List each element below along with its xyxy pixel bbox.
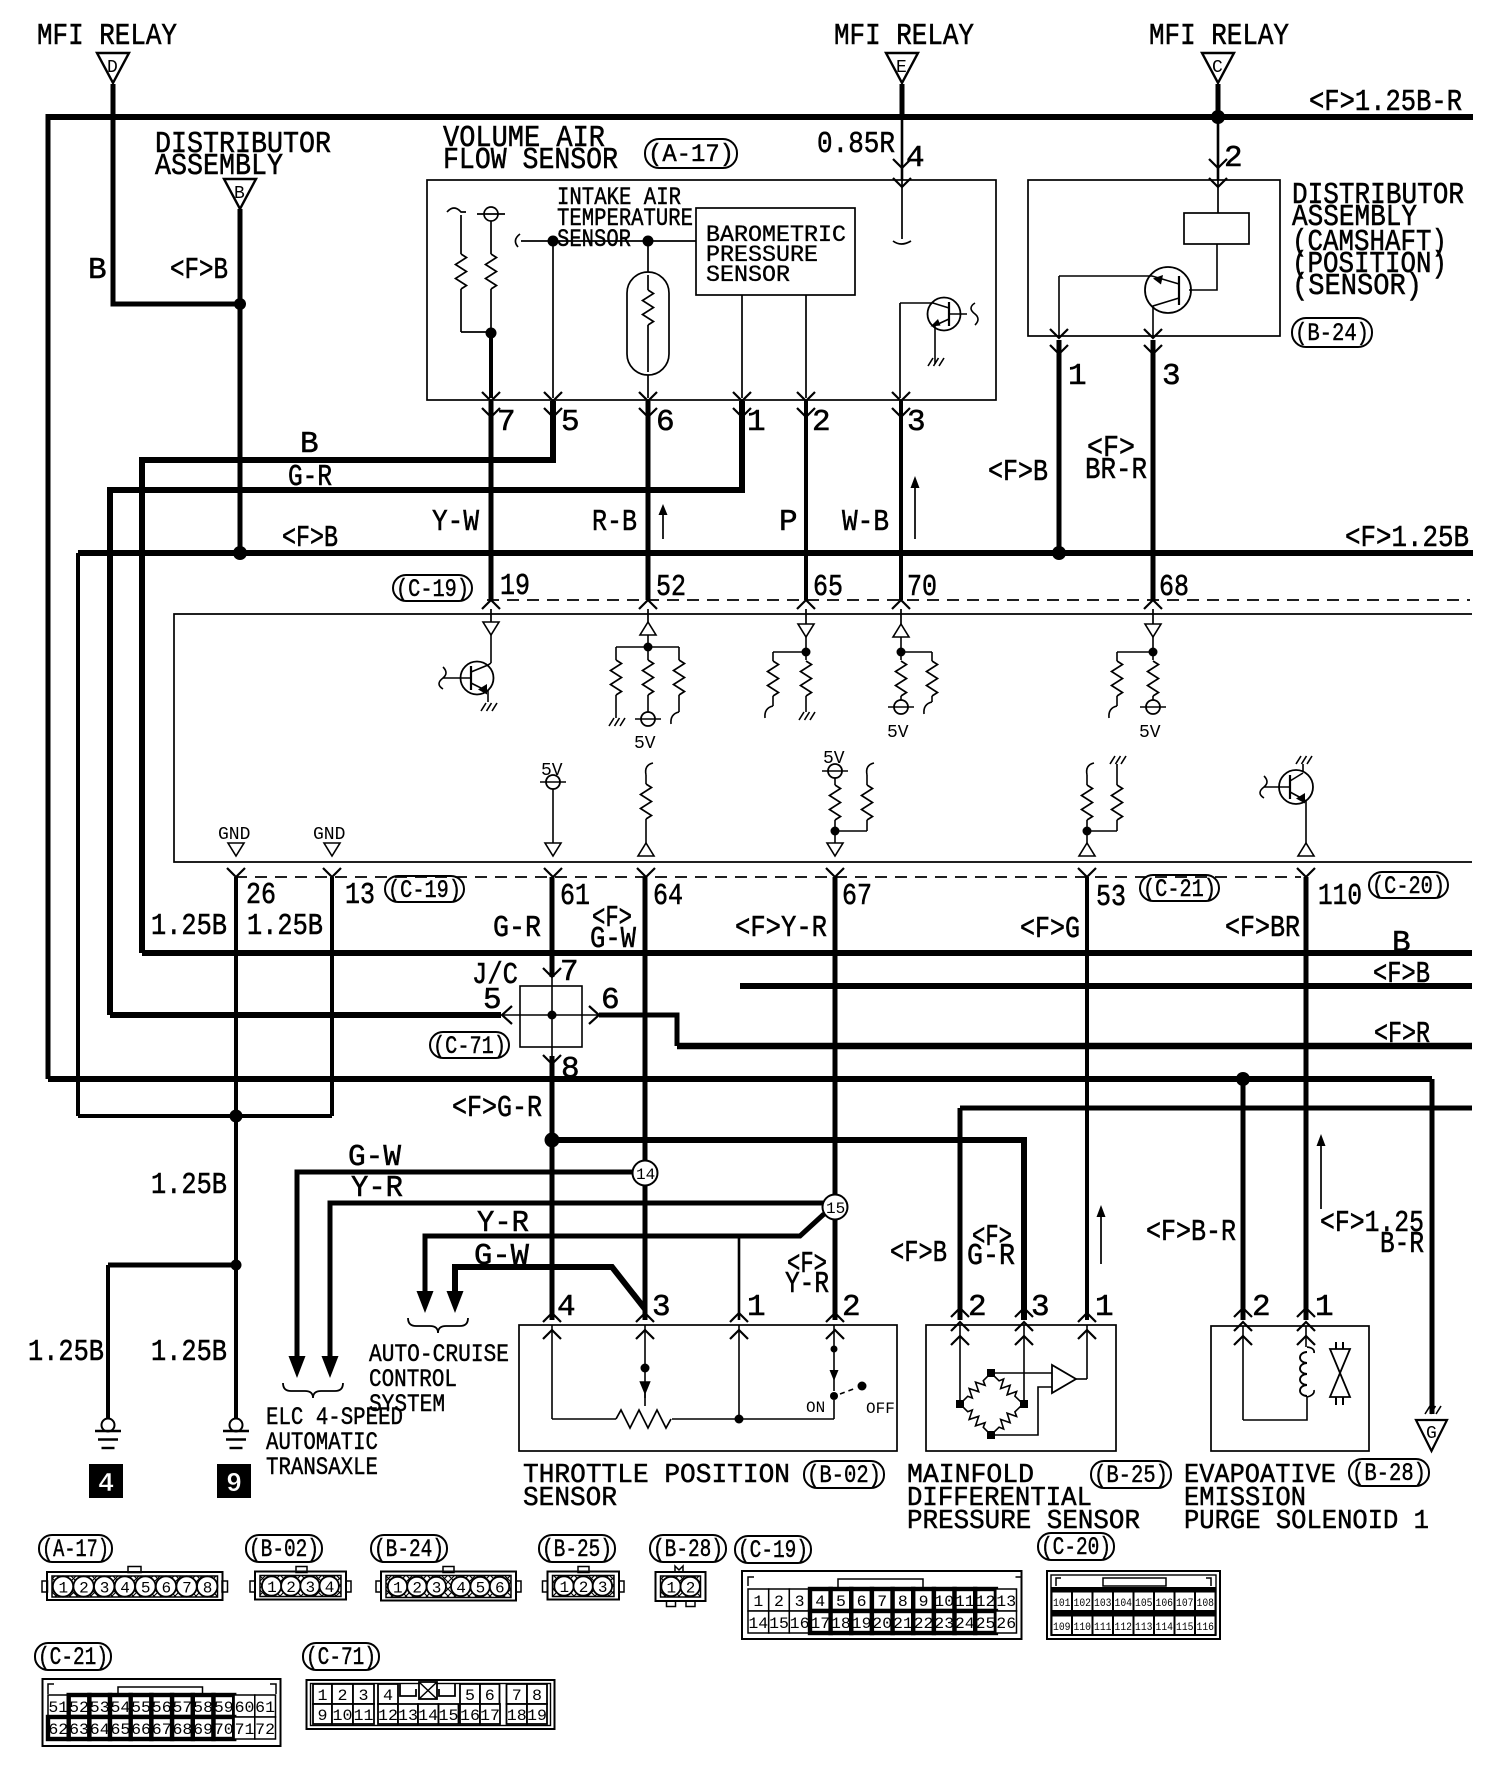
- svg-text:<F>R: <F>R: [1374, 1017, 1430, 1052]
- wire ground branch horizontal: [78, 1114, 332, 1118]
- box THROTTLE POSITION SENSOR: [519, 1325, 897, 1451]
- terminal hook pin64 top: [646, 763, 653, 775]
- pin70 resistor network: [897, 637, 933, 660]
- resistor pin70 left: [896, 661, 907, 700]
- svg-text:4: 4: [906, 141, 925, 176]
- junction dot pin53: [1083, 827, 1092, 836]
- svg-text:3: 3: [306, 1579, 316, 1597]
- svg-text:1.25B: 1.25B: [28, 1335, 104, 1370]
- wire pin13 drop: [330, 877, 334, 1116]
- svg-text:(C-71): (C-71): [433, 1032, 506, 1061]
- 5V supply pin68: [1140, 700, 1166, 714]
- wire MFI relay C drop: [1216, 84, 1221, 117]
- svg-text:ON: ON: [806, 1399, 825, 1417]
- J/C internal cross: [503, 977, 598, 1056]
- svg-text:Y-W: Y-W: [432, 505, 479, 540]
- wire B-24 pin1 (F)B drop: [1057, 340, 1062, 553]
- svg-text:5V: 5V: [823, 749, 845, 769]
- pin68 resistor network: [1117, 637, 1158, 660]
- amplifier B-25: [991, 1365, 1087, 1435]
- svg-text:9: 9: [318, 1707, 328, 1725]
- wire MFI relay E drop 0.85R: [900, 84, 905, 117]
- pin52 resistor network: [616, 635, 679, 652]
- svg-text:7: 7: [877, 1593, 887, 1611]
- 5V supply pin70: [888, 700, 914, 714]
- offpage arrow near pin52: [659, 504, 668, 539]
- connector triangle E: [886, 53, 918, 83]
- svg-text:1: 1: [753, 1593, 763, 1611]
- brace AUTO-CRUISE: [408, 1318, 468, 1333]
- svg-text:67: 67: [842, 879, 872, 914]
- VAF pin chevrons at box bottom: [482, 392, 910, 417]
- wire VAF pin6 to ECU pin52 R-B: [646, 401, 651, 600]
- transistor B-24 Q1: [1059, 267, 1191, 336]
- svg-text:102: 102: [1074, 1598, 1092, 1610]
- svg-text:P: P: [779, 505, 798, 540]
- svg-text:20: 20: [872, 1615, 892, 1633]
- svg-text:BR-R: BR-R: [1085, 453, 1147, 488]
- ECU pin chevrons top: [482, 600, 1162, 609]
- svg-text:9: 9: [226, 1470, 242, 1500]
- box ECU: [174, 614, 1472, 862]
- svg-text:69: 69: [193, 1721, 213, 1739]
- svg-text:67: 67: [152, 1721, 172, 1739]
- svg-text:2: 2: [338, 1687, 348, 1705]
- wiper arrow TPS: [641, 1382, 650, 1406]
- input triangle pin65: [798, 624, 814, 637]
- svg-text:(C-19): (C-19): [388, 876, 461, 905]
- svg-text:2: 2: [842, 1290, 861, 1325]
- svg-text:64: 64: [653, 879, 683, 914]
- svg-text:(B-25): (B-25): [542, 1535, 612, 1564]
- svg-text:14: 14: [748, 1615, 768, 1633]
- svg-text:6: 6: [656, 405, 675, 440]
- wire ground1 branch: [108, 1263, 236, 1268]
- svg-text:52: 52: [69, 1699, 89, 1717]
- wire G into J/C pin5: [110, 1012, 501, 1018]
- svg-text:MFI RELAY: MFI RELAY: [834, 19, 974, 54]
- offpage arrow near pin70: [911, 476, 920, 539]
- svg-text:70: 70: [214, 1721, 234, 1739]
- ground pin53 right resistor top: [1110, 756, 1126, 764]
- connector C-71 pinout: [307, 1680, 555, 1729]
- wire J/C pin8 down: [550, 1056, 555, 1320]
- junction dot IAT a: [548, 236, 559, 247]
- wire B-24 pin1 inside: [1058, 276, 1060, 336]
- wire pin19 to transistor: [490, 635, 492, 663]
- svg-text:D: D: [107, 58, 118, 78]
- terminal hook pin53 left top: [1087, 763, 1094, 775]
- transistor VAF Q1: [900, 298, 978, 365]
- J/C pin8 chevron: [543, 1055, 561, 1064]
- svg-text:FLOW SENSOR: FLOW SENSOR: [443, 143, 618, 178]
- svg-text:110: 110: [1074, 1622, 1092, 1634]
- wire pin67 drop to TPS pin2: [833, 877, 838, 1320]
- ground pin65: [799, 712, 815, 720]
- svg-text:3: 3: [1162, 359, 1181, 394]
- svg-text:112: 112: [1115, 1622, 1133, 1634]
- pin65 resistor network: [773, 637, 811, 660]
- offpage arrow B-28 pin1: [1317, 1134, 1326, 1209]
- output triangle pin67: [827, 843, 843, 856]
- 5V supply pin67: [822, 764, 848, 778]
- TPS pin chevrons: [543, 1313, 844, 1339]
- terminal hook pin52 right resistor: [671, 712, 679, 724]
- resistor pin52 right: [674, 647, 685, 712]
- svg-text:55: 55: [131, 1699, 151, 1717]
- svg-text:10: 10: [333, 1707, 353, 1725]
- wire pin110 drop to B-28 pin1: [1304, 877, 1309, 1320]
- svg-text:(C-20): (C-20): [1372, 872, 1445, 901]
- svg-text:16: 16: [460, 1707, 480, 1725]
- wire VAF pin7 to ECU pin19 Y-W: [489, 401, 494, 600]
- svg-text:72: 72: [255, 1721, 275, 1739]
- wire pin7 inside: [489, 333, 493, 398]
- B-25 pin chevrons: [951, 1308, 1096, 1345]
- svg-text:OFF: OFF: [866, 1400, 895, 1418]
- ground symbol 2: [223, 1419, 249, 1449]
- terminal hook pin4: [893, 241, 911, 244]
- connector C-21 pinout: [43, 1679, 281, 1746]
- svg-text:(B-28): (B-28): [1352, 1459, 1426, 1488]
- junction dot TPS pin1: [735, 1415, 744, 1424]
- wire (F)R horizontal: [677, 1043, 1472, 1050]
- arrow G-W to ELC: [289, 1356, 306, 1378]
- svg-text:B: B: [234, 184, 245, 204]
- svg-text:(C-21): (C-21): [1143, 875, 1216, 904]
- output triangle pin64: [638, 843, 654, 856]
- B-28 pin chevrons: [1234, 1308, 1315, 1345]
- wire ECU pin19 internal: [490, 609, 492, 622]
- svg-text:G: G: [1426, 1424, 1437, 1444]
- svg-text:6: 6: [495, 1580, 505, 1598]
- junction dot TPS pin3: [641, 1364, 650, 1373]
- pin 2 chevron B-24 top: [1209, 159, 1227, 168]
- svg-text:15: 15: [826, 1200, 845, 1218]
- input triangle pin19: [483, 622, 499, 635]
- svg-text:57: 57: [173, 1699, 193, 1717]
- wire ECU pin70 internal: [900, 609, 902, 624]
- svg-text:16: 16: [790, 1615, 810, 1633]
- ground pin52 left resistor: [609, 718, 625, 726]
- transistor ECU pin110: [1260, 764, 1313, 843]
- svg-text:3: 3: [100, 1580, 110, 1598]
- connector B-02 pinout: [250, 1567, 351, 1600]
- box DISTRIBUTOR ASSEMBLY B-24: [1028, 180, 1280, 336]
- svg-text:B-R: B-R: [1380, 1227, 1424, 1262]
- thermistor intake air temperature sensor: [627, 241, 669, 398]
- idle switch TPS: [830, 1346, 867, 1401]
- svg-text:109: 109: [1053, 1622, 1071, 1634]
- svg-text:MFI RELAY: MFI RELAY: [37, 19, 177, 54]
- connector ref C-71 pinout label: [303, 1643, 379, 1672]
- svg-text:SYSTEM: SYSTEM: [369, 1390, 445, 1419]
- svg-text:3: 3: [598, 1579, 608, 1597]
- svg-text:3: 3: [907, 405, 926, 440]
- J/C pin7 chevron: [543, 968, 561, 977]
- svg-text:7: 7: [512, 1687, 522, 1705]
- wire pin53 drop to B-25 pin1: [1085, 877, 1089, 1320]
- svg-text:<F>B: <F>B: [170, 253, 228, 288]
- connector ref A-17 pinout label: [39, 1535, 112, 1564]
- svg-text:104: 104: [1115, 1598, 1133, 1610]
- svg-text:(B-24): (B-24): [374, 1535, 444, 1564]
- svg-text:54: 54: [111, 1699, 131, 1717]
- svg-text:59: 59: [214, 1699, 234, 1717]
- svg-text:4: 4: [383, 1687, 393, 1705]
- connector ref B-02 pinout label: [246, 1535, 322, 1564]
- terminal hook IAT line: [515, 234, 520, 247]
- svg-text:61: 61: [255, 1699, 275, 1717]
- svg-text:13: 13: [398, 1707, 418, 1725]
- joint connector box C-71: [520, 986, 582, 1047]
- svg-text:4: 4: [815, 1593, 825, 1611]
- wire pin3 inside: [899, 303, 901, 398]
- svg-text:7: 7: [560, 955, 579, 990]
- svg-text:8: 8: [532, 1687, 542, 1705]
- svg-text:<F>1.25B-R: <F>1.25B-R: [1309, 85, 1462, 120]
- ECU top dashed connector line: [487, 599, 1470, 601]
- wire TPS pin1: [738, 1236, 741, 1320]
- resistor pin52 middle: [643, 647, 654, 712]
- svg-text:61: 61: [560, 879, 590, 914]
- brace ELC: [283, 1383, 343, 1398]
- flow sensor element symbol: [477, 207, 505, 221]
- svg-text:(B-02): (B-02): [807, 1461, 881, 1490]
- resistor pin65 left: [768, 652, 779, 706]
- wire purge G drop: [1430, 1079, 1435, 1414]
- svg-text:GND: GND: [313, 825, 345, 845]
- svg-text:6: 6: [162, 1580, 172, 1598]
- wire ECU pin68 internal: [1152, 609, 1154, 624]
- svg-text:116: 116: [1197, 1622, 1215, 1634]
- wire baro pin2: [805, 295, 807, 398]
- svg-text:(C-71): (C-71): [306, 1643, 376, 1672]
- resistor pin53 right: [1087, 764, 1123, 831]
- J/C pin5 arrow: [502, 1006, 512, 1024]
- ECU pin chevrons bottom: [227, 868, 1315, 877]
- svg-text:65: 65: [111, 1721, 131, 1739]
- svg-text:5: 5: [483, 983, 502, 1018]
- svg-text:Y-R: Y-R: [785, 1267, 829, 1302]
- svg-text:(C-20): (C-20): [1041, 1533, 1111, 1562]
- svg-text:1: 1: [318, 1687, 328, 1705]
- junction dot pin67: [831, 827, 840, 836]
- svg-text:64: 64: [90, 1721, 110, 1739]
- junction dot C on bus: [1211, 110, 1225, 124]
- resistor pin67 left: [830, 778, 841, 843]
- svg-text:5V: 5V: [634, 734, 656, 754]
- svg-text:1: 1: [560, 1579, 570, 1597]
- svg-text:TRANSAXLE: TRANSAXLE: [266, 1453, 378, 1482]
- svg-text:1.25B: 1.25B: [247, 909, 323, 944]
- gnd triangle pin26: [228, 843, 244, 856]
- connector B-24 pinout: [376, 1567, 521, 1601]
- junction dot B-28 pin2 feed: [1236, 1072, 1250, 1086]
- svg-text:24: 24: [955, 1615, 975, 1633]
- wheatstone bridge B-25: [956, 1369, 1028, 1439]
- svg-text:53: 53: [90, 1699, 110, 1717]
- B-24 pin chevrons: [1050, 329, 1162, 354]
- svg-text:13: 13: [996, 1593, 1016, 1611]
- ground VAF transistor emitter: [928, 358, 944, 366]
- svg-text:107: 107: [1176, 1598, 1194, 1610]
- junction dot D/B wires: [234, 298, 246, 310]
- svg-text:56: 56: [152, 1699, 172, 1717]
- svg-text:<F>BR: <F>BR: [1225, 911, 1300, 946]
- svg-text:C: C: [1212, 58, 1223, 78]
- svg-text:111: 111: [1094, 1622, 1112, 1634]
- connector ref B-25 pinout label: [539, 1535, 615, 1564]
- svg-text:SENSOR: SENSOR: [706, 262, 790, 288]
- svg-text:<F>B: <F>B: [282, 521, 338, 556]
- svg-text:E: E: [896, 58, 907, 78]
- svg-text:2: 2: [412, 1580, 422, 1598]
- svg-text:106: 106: [1156, 1598, 1174, 1610]
- wire B-24 pin3 BR-R drop: [1151, 340, 1156, 600]
- purge valve symbol B-28: [1330, 1342, 1350, 1405]
- wire Y-R to autocruise and splice15: [425, 1214, 824, 1291]
- svg-text:22: 22: [914, 1615, 934, 1633]
- svg-text:25: 25: [976, 1615, 996, 1633]
- svg-text:19: 19: [527, 1707, 547, 1725]
- svg-text:<F>B-R: <F>B-R: [1146, 1215, 1236, 1250]
- svg-text:5: 5: [476, 1580, 486, 1598]
- input triangle pin70: [893, 624, 909, 637]
- 5V supply pin61: [540, 775, 566, 789]
- ground pin19 transistor: [481, 703, 497, 711]
- connector ref C-19 bottom: [385, 876, 464, 905]
- connector ref C-71: [430, 1032, 509, 1061]
- svg-text:2: 2: [1224, 141, 1243, 176]
- box VOLUME AIR FLOW SENSOR: [427, 180, 996, 400]
- wire R1 bottom to junction: [461, 331, 491, 333]
- svg-text:3: 3: [432, 1580, 442, 1598]
- connector ref B-28: [1349, 1459, 1429, 1488]
- svg-text:<F>B: <F>B: [1373, 957, 1430, 992]
- wire left vertical B from bus: [46, 114, 51, 1079]
- svg-text:18: 18: [831, 1615, 851, 1633]
- resistor VAF R2: [486, 221, 497, 334]
- wire (F)B bus left corner drop: [76, 553, 80, 1116]
- output triangle pin53: [1079, 843, 1095, 856]
- connector triangle B: [224, 179, 256, 209]
- svg-text:13: 13: [345, 878, 375, 913]
- wire (F)G-R horizontal to B-25 pin3: [552, 1140, 1024, 1320]
- svg-text:<F>B: <F>B: [890, 1236, 947, 1271]
- terminal hook pin68 left: [1109, 706, 1117, 718]
- svg-text:(C-19): (C-19): [738, 1536, 808, 1565]
- svg-text:12: 12: [378, 1707, 398, 1725]
- svg-text:(A-17): (A-17): [648, 140, 734, 169]
- wire IAT sensor bus: [521, 240, 696, 242]
- svg-text:1: 1: [667, 1580, 677, 1598]
- svg-text:9: 9: [919, 1593, 929, 1611]
- resistor pin68 right: [1148, 661, 1159, 700]
- terminal hook pin67 right resistor top: [867, 763, 874, 775]
- svg-text:23: 23: [934, 1615, 954, 1633]
- connector ref B-24 pinout label: [371, 1535, 447, 1564]
- svg-text:B: B: [300, 427, 319, 462]
- wire ECU pin65 internal: [805, 609, 807, 624]
- box BAROMETRIC PRESSURE SENSOR: [696, 208, 855, 295]
- svg-text:114: 114: [1156, 1622, 1174, 1634]
- svg-text:1.25B: 1.25B: [151, 909, 227, 944]
- connector C-20 pinout: [1047, 1571, 1220, 1639]
- resistor pin65 right: [801, 661, 812, 712]
- svg-text:R-B: R-B: [592, 505, 637, 540]
- svg-text:71: 71: [235, 1721, 255, 1739]
- wire distributor B drop: [238, 209, 243, 553]
- svg-text:14: 14: [636, 1166, 655, 1184]
- resistor TPS: [616, 1410, 671, 1428]
- box EVAPORATIVE EMISSION PURGE SOLENOID: [1211, 1326, 1369, 1451]
- connector ref C-20: [1369, 872, 1448, 901]
- svg-text:5V: 5V: [1139, 723, 1161, 743]
- junction dot B-24 pin1 on bus: [1052, 546, 1066, 560]
- svg-text:66: 66: [131, 1721, 151, 1739]
- svg-text:6: 6: [857, 1593, 867, 1611]
- connector B-25 pinout: [543, 1567, 625, 1600]
- svg-text:1: 1: [1315, 1290, 1334, 1325]
- wire B-28 pin2 drop: [1241, 1079, 1246, 1320]
- svg-text:63: 63: [69, 1721, 89, 1739]
- wire B-25 pin2 riser: [960, 1106, 1472, 1111]
- output triangle pin61: [545, 843, 561, 856]
- gnd triangle pin13: [324, 843, 340, 856]
- svg-text:(A-17): (A-17): [42, 1535, 109, 1564]
- svg-text:62: 62: [48, 1721, 68, 1739]
- TPS internal wires: [552, 1325, 834, 1419]
- svg-text:ASSEMBLY: ASSEMBLY: [155, 149, 283, 184]
- ground ref box 9: [217, 1464, 251, 1500]
- splice circle 15: [823, 1195, 848, 1220]
- svg-text:G-R: G-R: [493, 911, 541, 946]
- svg-text:(B-24): (B-24): [1295, 319, 1369, 348]
- svg-text:PURGE SOLENOID 1: PURGE SOLENOID 1: [1184, 1507, 1429, 1537]
- svg-text:2: 2: [286, 1579, 296, 1597]
- svg-text:2: 2: [686, 1580, 696, 1598]
- svg-text:19: 19: [500, 569, 530, 604]
- resistor pin70 right: [927, 652, 938, 702]
- connector ref B-25: [1091, 1461, 1171, 1490]
- resistor VAF R1: [456, 215, 467, 332]
- svg-text:<F>B: <F>B: [988, 455, 1048, 490]
- svg-text:2: 2: [1252, 1290, 1271, 1325]
- svg-text:(B-25): (B-25): [1094, 1461, 1168, 1490]
- connector triangle C: [1202, 53, 1234, 83]
- svg-text:15: 15: [439, 1707, 459, 1725]
- junction dot pin26/ground branch: [230, 1110, 243, 1123]
- resistor pin68 left: [1112, 652, 1123, 706]
- box MAINFOLD DIFFERENTIAL PRESSURE SENSOR: [926, 1325, 1116, 1451]
- connector ref C-20 pinout label: [1038, 1533, 1114, 1562]
- svg-text:1: 1: [747, 405, 766, 440]
- svg-text:0.85R: 0.85R: [817, 127, 895, 162]
- resistor pin64: [641, 775, 652, 843]
- connector ref C-21 pinout label: [35, 1643, 111, 1672]
- resistor pin67 right: [835, 775, 873, 831]
- svg-text:1: 1: [267, 1579, 277, 1597]
- wire VAF pin1 G-R: [110, 401, 742, 1015]
- svg-text:8: 8: [203, 1580, 213, 1598]
- svg-text:10: 10: [934, 1593, 954, 1611]
- camshaft sensor pickup element: [1184, 180, 1249, 244]
- svg-text:101: 101: [1053, 1598, 1071, 1610]
- wire (F)B / (F)1.25B bus: [78, 550, 1473, 556]
- svg-text:2: 2: [79, 1580, 89, 1598]
- connector B-28 pinout: [656, 1566, 706, 1607]
